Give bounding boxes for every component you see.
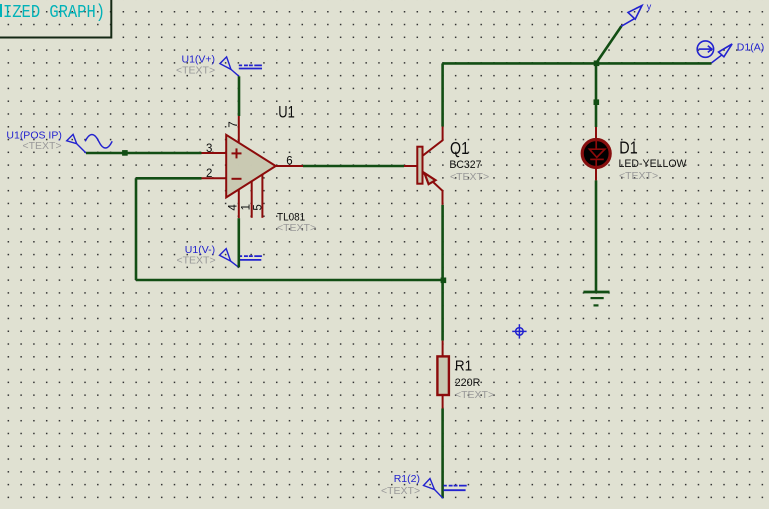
svg-text:<TEXT>: <TEXT> [450,171,489,183]
bottom pin [442,395,444,409]
junction input wire [122,150,128,156]
pin 2 stub [202,177,227,179]
minus symbol [232,178,242,180]
svg-text:7: 7 [228,121,240,127]
svg-text:D1(A): D1(A) [737,42,764,54]
svg-text:5: 5 [252,204,264,210]
graph box (top-left, clipped) [0,0,111,38]
diode symbol [590,140,605,169]
wire input to pin3 [86,152,202,155]
base bar [417,147,422,184]
resistor R1 [437,341,494,409]
wire pin2 feedback [136,178,443,280]
plus symbol [232,148,242,158]
svg-text:<TEXT>: <TEXT> [381,485,420,497]
wire rail down to LED [595,63,598,127]
terminal D1(A) [697,41,764,63]
svg-text:D1: D1 [619,138,637,158]
origin marker [512,324,526,338]
terminal U1(V+) [176,54,262,77]
svg-text:<TEXT>: <TEXT> [619,170,658,182]
svg-text:U1: U1 [278,102,295,121]
anode pin [595,127,597,140]
base stub [404,165,417,167]
svg-text:<TEXT>: <TEXT> [176,65,215,77]
svg-text:IZED GRAPH): IZED GRAPH) [3,3,105,23]
svg-text:1: 1 [240,204,252,210]
wire top rail [443,62,712,65]
svg-text:y: y [647,2,652,12]
ground [583,292,609,305]
svg-text:4: 4 [228,204,240,211]
junction top rail [594,61,600,67]
wire LED to ground [595,180,598,292]
svg-text:Q1: Q1 [450,138,469,158]
wire emitter to resistor [441,205,444,341]
transistor Q1 [404,127,489,205]
emitter lead [423,173,443,205]
svg-text:<TEXT>: <TEXT> [177,255,216,267]
svg-text:6: 6 [286,155,292,167]
pin 1 stub [251,181,253,218]
emitter arrow (PNP) [424,173,435,184]
svg-text:LED-YELLOW: LED-YELLOW [619,158,688,170]
wire collector up [441,63,444,126]
svg-text:<TEXT>: <TEXT> [455,389,494,401]
LED D1 [582,127,687,182]
top pin [442,341,444,357]
wire probe diagonal [596,26,622,63]
wire resistor to R1(2) terminal [441,409,444,499]
pin 6 stub [276,165,303,167]
svg-text:R1: R1 [455,358,472,375]
svg-text:220R: 220R [455,377,481,389]
svg-text:<TEXT>: <TEXT> [23,140,62,152]
pin 5 stub [261,174,263,218]
body [437,356,449,395]
triangle body [226,135,276,198]
svg-text:BC327: BC327 [449,159,481,171]
sine symbol [85,135,112,149]
terminal U1(POS IP) [6,130,112,153]
pin 3 stub [202,152,227,154]
pin 4 stub [238,190,240,219]
svg-text:<TEXT>: <TEXT> [277,222,316,234]
svg-text:2: 2 [206,168,212,180]
junction feedback/emitter [441,278,447,284]
op-amp U1 [202,102,317,234]
junction above LED [594,99,600,105]
pin 7 stub [238,116,240,142]
cathode pin [595,169,597,181]
wire pin4 to V- terminal [238,218,241,267]
terminal U1(V-) [177,244,262,267]
wire V+ to opamp pin7 [238,76,241,116]
svg-text:3: 3 [206,143,212,155]
LED body [582,140,610,168]
terminal R1(2) [381,473,467,499]
collector lead [423,127,443,156]
wire opamp output to Q1 base [303,165,404,168]
probe y arrow [621,2,652,27]
svg-text:R1(2): R1(2) [394,473,420,485]
